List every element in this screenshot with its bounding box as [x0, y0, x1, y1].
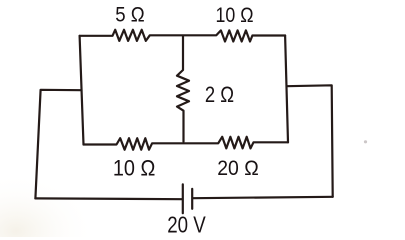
svg-text:2 Ω: 2 Ω: [205, 82, 234, 107]
svg-text:5 Ω: 5 Ω: [115, 4, 145, 27]
svg-text:10 Ω: 10 Ω: [113, 156, 156, 181]
svg-text:10 Ω: 10 Ω: [216, 4, 254, 27]
svg-text:20 Ω: 20 Ω: [217, 155, 259, 180]
svg-text:20 V: 20 V: [167, 212, 206, 237]
